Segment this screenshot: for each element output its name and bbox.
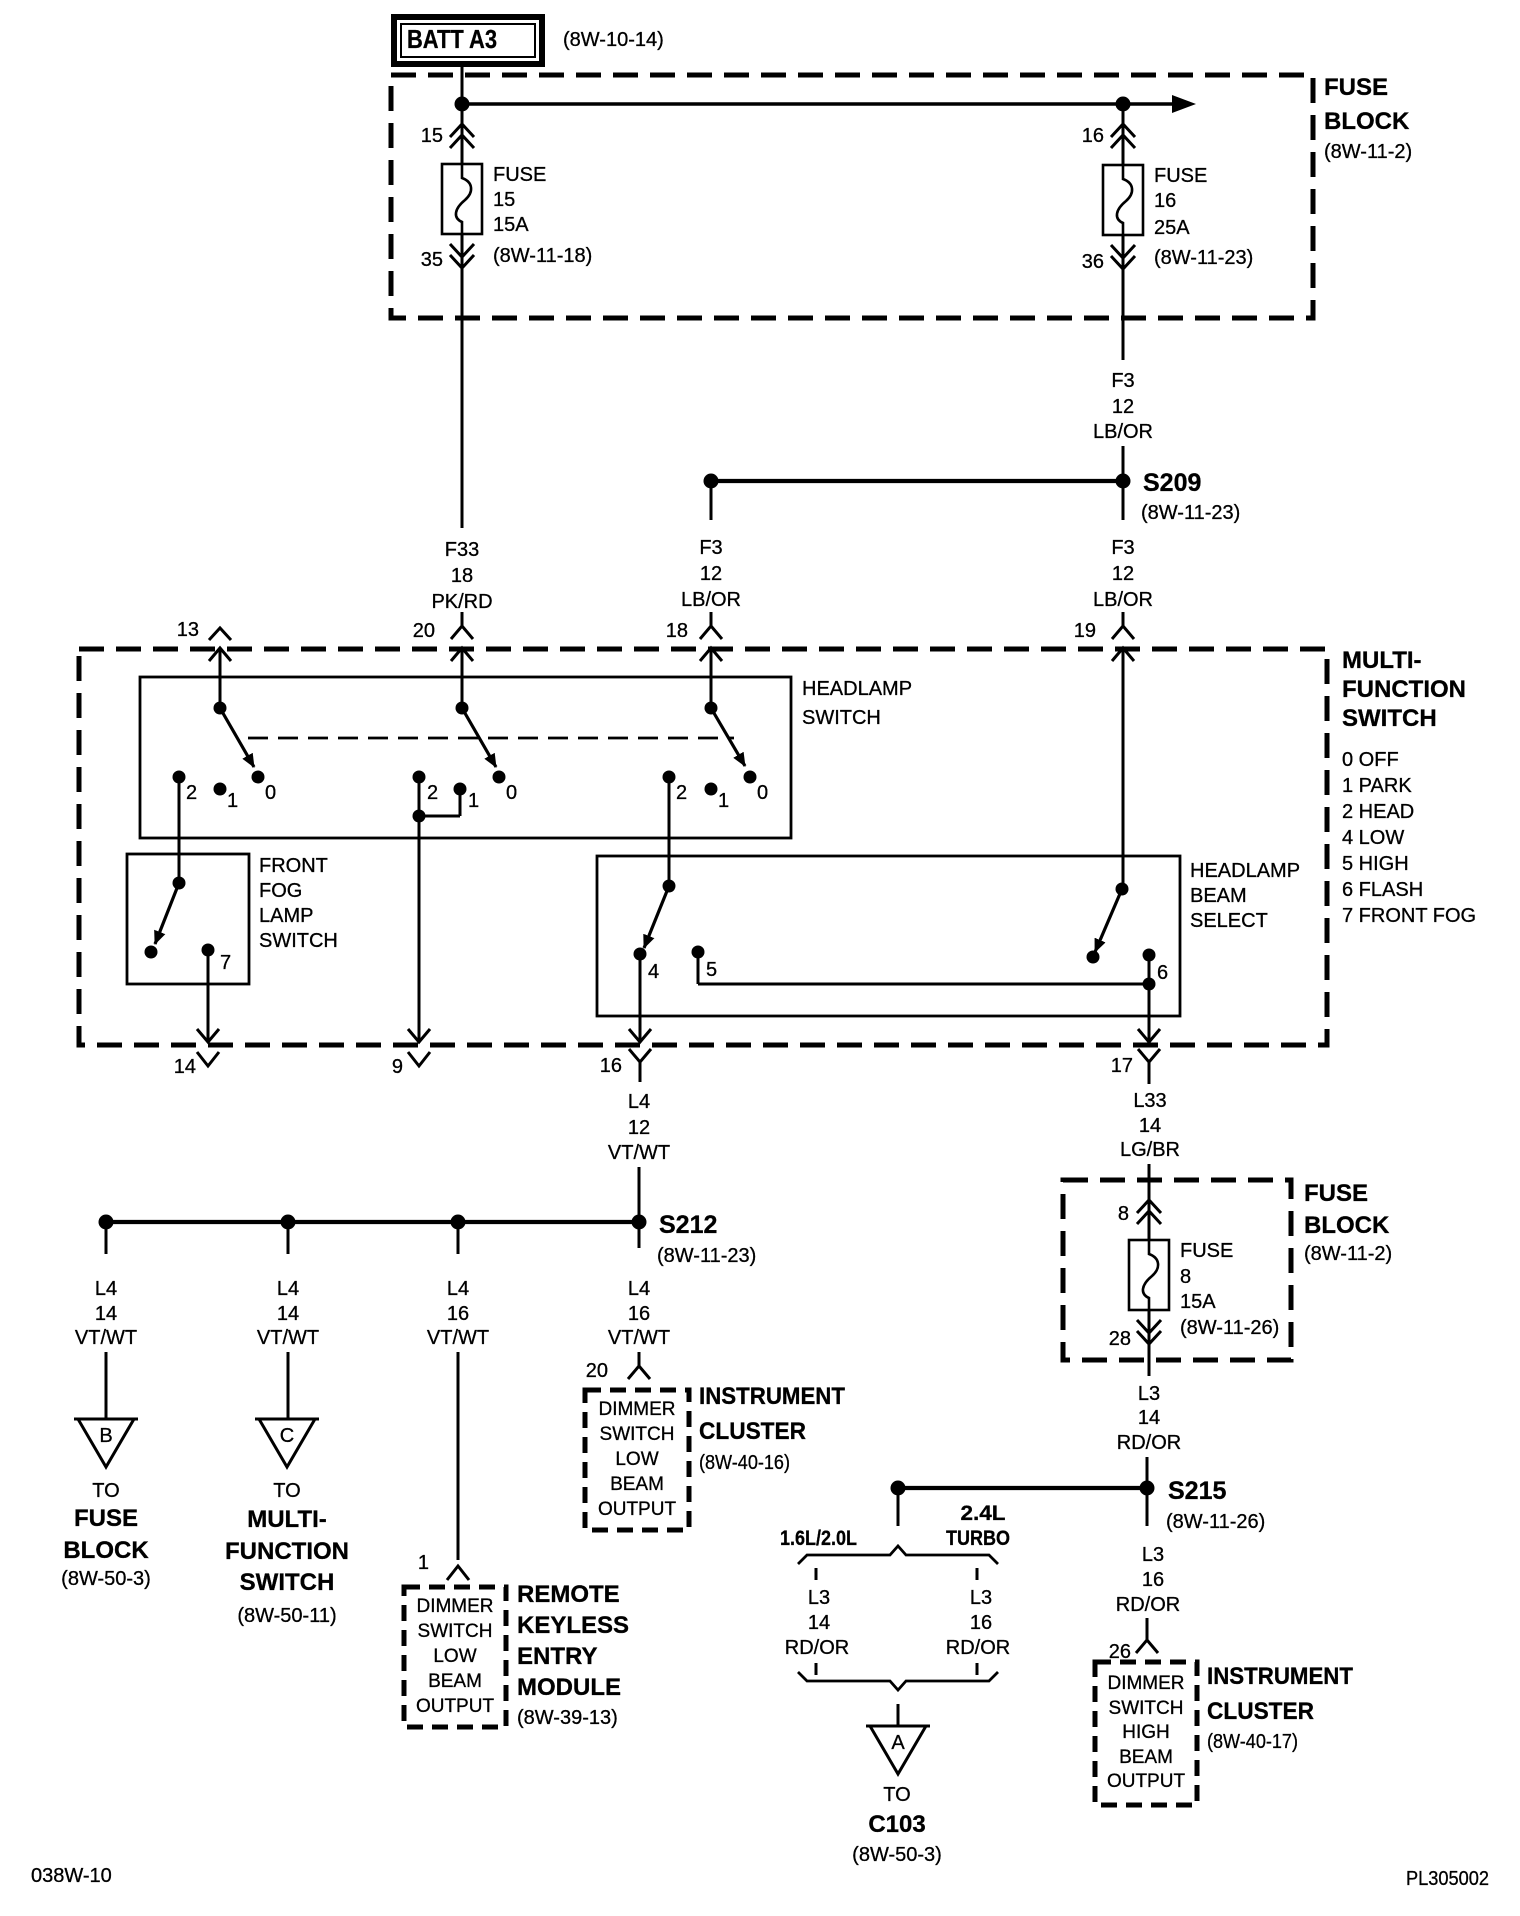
svg-text:DIMMER: DIMMER [598, 1399, 675, 1420]
svg-text:FRONT: FRONT [259, 855, 328, 877]
connector pin 16 (exit) [600, 1029, 651, 1077]
svg-text:L3: L3 [1142, 1544, 1164, 1566]
label HEADLAMP BEAM SELECT [1190, 860, 1300, 932]
svg-text:(8W-11-2): (8W-11-2) [1304, 1243, 1392, 1265]
pin 15 connector [421, 104, 474, 164]
svg-text:TURBO: TURBO [946, 1527, 1010, 1550]
wire to triangle A [897, 1704, 900, 1726]
svg-text:PK/RD: PK/RD [431, 591, 492, 613]
svg-text:17: 17 [1111, 1055, 1133, 1077]
label 2.4L TURBO [946, 1502, 1010, 1550]
svg-text:BEAM: BEAM [610, 1474, 664, 1495]
branch stubs lower [816, 1663, 977, 1675]
wire junction to pin 17 [1148, 984, 1151, 1042]
wire L4 14 VT/WT branch C [257, 1222, 319, 1419]
svg-text:16: 16 [447, 1303, 469, 1325]
connector pin 9 (exit, unused) [392, 1029, 430, 1078]
splice S212 bus [99, 1211, 757, 1267]
pole 1 contacts 2,1,0 [173, 771, 277, 813]
svg-text:16: 16 [970, 1612, 992, 1634]
splice S209 [704, 469, 1241, 524]
svg-text:SWITCH: SWITCH [418, 1621, 493, 1642]
svg-text:LG/BR: LG/BR [1120, 1139, 1180, 1161]
pin 36 connector [1082, 234, 1135, 273]
svg-text:0 OFF: 0 OFF [1342, 749, 1399, 771]
wire from BATT A3 into fuse block [461, 64, 464, 104]
svg-text:LAMP: LAMP [259, 905, 313, 927]
svg-text:HEADLAMP: HEADLAMP [802, 678, 912, 700]
svg-text:LB/OR: LB/OR [1093, 421, 1153, 443]
svg-text:8: 8 [1180, 1266, 1191, 1288]
front fog lamp switch box [127, 854, 249, 984]
svg-text:(8W-10-14): (8W-10-14) [563, 29, 664, 51]
svg-text:BLOCK: BLOCK [63, 1537, 149, 1564]
connector pin 20 (instrument cluster) [586, 1352, 650, 1382]
svg-text:FUSE: FUSE [1180, 1240, 1233, 1262]
wire L4 16 VT/WT branch to RKE module [427, 1222, 489, 1560]
svg-text:A: A [891, 1732, 905, 1754]
svg-text:15A: 15A [493, 214, 529, 236]
svg-text:L33: L33 [1133, 1090, 1166, 1112]
svg-text:DIMMER: DIMMER [1107, 1673, 1184, 1694]
pole 3 contacts 2,1,0 [663, 771, 769, 813]
svg-text:FUNCTION: FUNCTION [1342, 676, 1466, 703]
svg-text:4 LOW: 4 LOW [1342, 827, 1404, 849]
svg-text:OUTPUT: OUTPUT [1107, 1771, 1186, 1792]
label FUSE BLOCK (8W-11-2) lower [1304, 1180, 1392, 1265]
splice S215 [891, 1477, 1266, 1533]
svg-text:RD/OR: RD/OR [946, 1637, 1010, 1659]
svg-text:INSTRUMENT: INSTRUMENT [1207, 1663, 1353, 1690]
wire F33 18 PK/RD [431, 268, 492, 613]
svg-text:RD/OR: RD/OR [1116, 1594, 1180, 1616]
svg-text:OUTPUT: OUTPUT [416, 1696, 495, 1717]
svg-text:6 FLASH: 6 FLASH [1342, 879, 1423, 901]
svg-text:12: 12 [700, 563, 722, 585]
svg-text:TO: TO [92, 1480, 119, 1502]
wire contact 2 to beam select pivot [668, 777, 671, 886]
svg-text:RD/OR: RD/OR [785, 1637, 849, 1659]
pin 35 connector [421, 233, 474, 271]
wire pin 19 to beam select pole [1122, 648, 1125, 889]
svg-text:15: 15 [421, 125, 443, 147]
svg-text:(8W-11-23): (8W-11-23) [657, 1245, 756, 1267]
wire L4 16 VT/WT branch to instrument cluster [608, 1222, 670, 1349]
connector pin 18 (multi-function switch) [666, 612, 722, 661]
label MULTI-FUNCTION SWITCH + positions [1342, 647, 1476, 927]
svg-text:DIMMER: DIMMER [416, 1596, 493, 1617]
switch pole 3 arm [711, 708, 745, 766]
svg-text:VT/WT: VT/WT [257, 1327, 319, 1349]
svg-text:MODULE: MODULE [517, 1674, 621, 1701]
wire L3 14 RD/OR branch [785, 1587, 849, 1659]
svg-text:RD/OR: RD/OR [1117, 1432, 1181, 1454]
svg-text:REMOTE: REMOTE [517, 1581, 620, 1608]
label INSTRUMENT CLUSTER (8W-40-16) [699, 1383, 845, 1474]
node junction at fuse 15 [455, 97, 470, 112]
svg-text:15: 15 [493, 189, 515, 211]
wire contact 2 to fog switch pivot [178, 777, 181, 883]
svg-text:7 FRONT FOG: 7 FRONT FOG [1342, 905, 1476, 927]
svg-text:20: 20 [586, 1360, 608, 1382]
svg-text:14: 14 [95, 1303, 117, 1325]
fuse block 2 outline (dashed) [1063, 1180, 1291, 1360]
wire bus inside fuse block with arrow [462, 95, 1196, 113]
svg-text:L4: L4 [628, 1091, 650, 1113]
svg-text:CLUSTER: CLUSTER [699, 1418, 806, 1445]
connector pin 19 (multi-function switch) [1074, 612, 1134, 661]
wire L4 14 VT/WT branch B [75, 1222, 137, 1419]
svg-text:L4: L4 [277, 1278, 299, 1300]
svg-text:1.6L/2.0L: 1.6L/2.0L [780, 1527, 857, 1550]
merge brace lower [798, 1672, 998, 1690]
svg-text:1: 1 [227, 790, 238, 812]
svg-text:C103: C103 [868, 1811, 925, 1838]
svg-text:13: 13 [177, 619, 199, 641]
mechanical link (dashed) [248, 737, 734, 740]
svg-text:16: 16 [628, 1303, 650, 1325]
svg-text:18: 18 [666, 620, 688, 642]
label FRONT FOG LAMP SWITCH [259, 855, 338, 952]
connector pin 20 (multi-function switch) [413, 612, 473, 661]
svg-text:LB/OR: LB/OR [681, 589, 741, 611]
svg-text:SWITCH: SWITCH [1342, 705, 1437, 732]
beam select pole 1 arm [644, 886, 669, 948]
svg-text:2.4L: 2.4L [961, 1502, 1006, 1525]
svg-text:PL305002: PL305002 [1406, 1868, 1489, 1890]
svg-text:0: 0 [265, 782, 276, 804]
beam select pole 1 pivot [663, 880, 676, 893]
svg-text:(8W-40-17): (8W-40-17) [1207, 1731, 1298, 1753]
svg-text:0: 0 [506, 782, 517, 804]
switch pole 3 pivot [705, 702, 718, 715]
svg-text:5 HIGH: 5 HIGH [1342, 853, 1409, 875]
beam select contacts 4,5 [634, 946, 718, 984]
svg-text:LOW: LOW [433, 1646, 476, 1667]
svg-text:FOG: FOG [259, 880, 302, 902]
svg-text:L4: L4 [95, 1278, 117, 1300]
svg-text:HIGH: HIGH [1122, 1722, 1170, 1743]
svg-text:0: 0 [757, 782, 768, 804]
svg-text:F3: F3 [1111, 370, 1134, 392]
svg-text:VT/WT: VT/WT [608, 1327, 670, 1349]
svg-text:6: 6 [1157, 962, 1168, 984]
label INSTRUMENT CLUSTER (8W-40-17) [1207, 1663, 1353, 1753]
connector pin 14 (exit, unused) [174, 1029, 219, 1078]
svg-text:HEADLAMP: HEADLAMP [1190, 860, 1300, 882]
switch pole 2 pivot [456, 702, 469, 715]
switch pole 1 arm [220, 708, 254, 767]
wire contact 5 to contact 6 junction [698, 952, 1156, 991]
switch pole 1 pivot [214, 702, 227, 715]
svg-text:BLOCK: BLOCK [1304, 1212, 1390, 1239]
wire F3 12 LB/OR (S209 right branch) [1093, 481, 1153, 611]
dimmer switch low beam output box (cluster) [585, 1390, 689, 1530]
svg-text:CLUSTER: CLUSTER [1207, 1698, 1314, 1725]
fuse 15 15A [442, 164, 592, 267]
svg-text:1: 1 [718, 790, 729, 812]
svg-text:OUTPUT: OUTPUT [598, 1499, 677, 1520]
svg-text:LB/OR: LB/OR [1093, 589, 1153, 611]
node junction at fuse 16 [1116, 97, 1131, 112]
svg-text:1: 1 [418, 1552, 429, 1574]
svg-text:(8W-11-2): (8W-11-2) [1324, 141, 1412, 163]
svg-text:28: 28 [1109, 1328, 1131, 1350]
wire pin 18 to headlamp switch pole [710, 648, 713, 708]
connector triangle B [74, 1419, 138, 1467]
svg-text:2: 2 [427, 782, 438, 804]
svg-text:C: C [280, 1425, 294, 1447]
wire L3 14 RD/OR (to S215) [1117, 1344, 1181, 1481]
connector pin 1 (RKE module) [418, 1552, 469, 1580]
label FUSE BLOCK (8W-11-2) [1324, 74, 1412, 163]
beam select pole 2 pivot [1116, 883, 1129, 896]
svg-text:L4: L4 [447, 1278, 469, 1300]
svg-text:14: 14 [1138, 1407, 1160, 1429]
svg-text:4: 4 [648, 961, 659, 983]
svg-text:1: 1 [468, 790, 479, 812]
connector pin 26 (instrument cluster) [1109, 1632, 1158, 1663]
connector pin 13 (multi-function switch, no wire) [177, 619, 231, 661]
svg-text:15A: 15A [1180, 1291, 1216, 1313]
svg-text:16: 16 [1082, 125, 1104, 147]
svg-text:L3: L3 [970, 1587, 992, 1609]
wire F3 12 LB/OR (fuse 16 to S209) [1093, 268, 1153, 481]
svg-text:BATT A3: BATT A3 [407, 24, 497, 54]
svg-text:5: 5 [706, 959, 717, 981]
svg-text:BEAM: BEAM [428, 1671, 482, 1692]
svg-text:14: 14 [808, 1612, 830, 1634]
label REMOTE KEYLESS ENTRY MODULE (8W-39-13) [517, 1581, 629, 1729]
svg-text:7: 7 [220, 952, 231, 974]
fuse 8 15A [1129, 1240, 1279, 1339]
pin 28 connector [1109, 1310, 1161, 1350]
label HEADLAMP SWITCH [802, 678, 912, 729]
label TO C103 (8W-50-3) [852, 1784, 942, 1866]
svg-text:L3: L3 [1138, 1383, 1160, 1405]
svg-text:BEAM: BEAM [1190, 885, 1247, 907]
connector pin 17 (exit) [1111, 1029, 1160, 1077]
svg-text:ENTRY: ENTRY [517, 1643, 597, 1670]
svg-text:8: 8 [1118, 1203, 1129, 1225]
svg-text:FUSE: FUSE [493, 164, 546, 186]
svg-text:35: 35 [421, 249, 443, 271]
svg-text:SWITCH: SWITCH [802, 707, 881, 729]
wire L3 16 RD/OR branch [946, 1587, 1010, 1659]
connector BATT A3 feed box [394, 17, 542, 64]
dimmer switch high beam output box (cluster) [1095, 1662, 1197, 1805]
svg-text:(8W-39-13): (8W-39-13) [517, 1707, 618, 1729]
wire L3 16 RD/OR (S215 to cluster) [1116, 1495, 1180, 1632]
svg-text:MULTI-: MULTI- [247, 1506, 327, 1533]
svg-text:12: 12 [1112, 396, 1134, 418]
svg-text:TO: TO [883, 1784, 910, 1806]
label TO MULTI-FUNCTION SWITCH (8W-50-11) [225, 1480, 349, 1627]
label TO FUSE BLOCK (8W-50-3) [61, 1480, 151, 1590]
svg-text:20: 20 [413, 620, 435, 642]
svg-text:SELECT: SELECT [1190, 910, 1268, 932]
svg-text:S209: S209 [1143, 469, 1201, 497]
svg-text:SWITCH: SWITCH [1109, 1698, 1184, 1719]
svg-text:(8W-50-11): (8W-50-11) [237, 1605, 336, 1627]
svg-text:12: 12 [628, 1117, 650, 1139]
svg-text:BEAM: BEAM [1119, 1747, 1173, 1768]
branch stubs upper [816, 1568, 977, 1580]
svg-text:2 HEAD: 2 HEAD [1342, 801, 1414, 823]
svg-text:(8W-50-3): (8W-50-3) [852, 1844, 942, 1866]
svg-text:INSTRUMENT: INSTRUMENT [699, 1383, 845, 1410]
svg-text:VT/WT: VT/WT [608, 1142, 670, 1164]
headlamp switch box [140, 677, 791, 838]
connector triangle A [866, 1726, 930, 1774]
svg-text:16: 16 [1154, 190, 1176, 212]
pole 2 contacts 2,1,0 [413, 771, 518, 813]
svg-text:9: 9 [392, 1056, 403, 1078]
svg-text:16: 16 [1142, 1569, 1164, 1591]
fog switch arm [155, 883, 179, 944]
fuse block outline (dashed) [391, 75, 1313, 318]
beam select contacts (landed), 6 [1087, 949, 1169, 985]
wire F3 12 LB/OR (S209 left branch) [681, 481, 741, 611]
fog switch pivot [173, 877, 186, 890]
wire S215 to engine split [897, 1488, 900, 1526]
svg-text:(8W-40-16): (8W-40-16) [699, 1452, 790, 1474]
svg-text:(8W-11-23): (8W-11-23) [1154, 247, 1253, 269]
svg-text:25A: 25A [1154, 217, 1190, 239]
svg-text:F3: F3 [699, 537, 722, 559]
dimmer switch low beam output box (RKE) [404, 1587, 506, 1727]
wire pin 20 to headlamp switch pole [461, 648, 464, 708]
svg-text:S212: S212 [659, 1211, 717, 1239]
svg-text:L3: L3 [808, 1587, 830, 1609]
svg-text:(8W-50-3): (8W-50-3) [61, 1568, 151, 1590]
pin 16 connector [1082, 104, 1135, 165]
svg-text:14: 14 [174, 1056, 196, 1078]
svg-text:36: 36 [1082, 251, 1104, 273]
beam select pole 2 arm [1095, 889, 1122, 952]
svg-text:18: 18 [451, 565, 473, 587]
wire L4 12 VT/WT (pin16 to S212) [608, 1075, 670, 1222]
pin 8 connector [1118, 1200, 1161, 1240]
svg-text:B: B [99, 1425, 112, 1447]
fog switch contacts [145, 944, 232, 975]
svg-text:FUSE: FUSE [1324, 74, 1388, 101]
svg-text:F3: F3 [1111, 537, 1134, 559]
wire contact 7 to pin 14 [207, 950, 210, 1042]
svg-text:L4: L4 [628, 1278, 650, 1300]
headlamp beam select box [597, 856, 1180, 1016]
svg-text:038W-10: 038W-10 [31, 1865, 112, 1887]
svg-text:2: 2 [186, 782, 197, 804]
svg-text:FUNCTION: FUNCTION [225, 1538, 349, 1565]
svg-text:FUSE: FUSE [1304, 1180, 1368, 1207]
svg-text:12: 12 [1112, 563, 1134, 585]
svg-text:SWITCH: SWITCH [259, 930, 338, 952]
svg-text:F33: F33 [445, 539, 479, 561]
wire pin 13 to headlamp switch pole [219, 648, 222, 708]
svg-text:BLOCK: BLOCK [1324, 108, 1410, 135]
wire pole2 junction to pin 9 [418, 816, 421, 1042]
multi-function switch outline (dashed) [79, 649, 1327, 1045]
svg-text:FUSE: FUSE [74, 1505, 138, 1532]
svg-text:16: 16 [600, 1055, 622, 1077]
svg-text:S215: S215 [1168, 1477, 1226, 1505]
svg-text:(8W-11-23): (8W-11-23) [1141, 502, 1240, 524]
svg-text:19: 19 [1074, 620, 1096, 642]
svg-text:LOW: LOW [615, 1449, 658, 1470]
svg-text:14: 14 [277, 1303, 299, 1325]
connector triangle C [255, 1419, 319, 1467]
switch pole 2 arm [462, 708, 496, 767]
svg-text:SWITCH: SWITCH [600, 1424, 675, 1445]
svg-text:KEYLESS: KEYLESS [517, 1612, 629, 1639]
svg-text:(8W-11-18): (8W-11-18) [493, 245, 592, 267]
svg-text:VT/WT: VT/WT [75, 1327, 137, 1349]
wire contact2 to contact1 link (pole 2) [413, 777, 461, 823]
svg-text:FUSE: FUSE [1154, 165, 1207, 187]
svg-text:(8W-11-26): (8W-11-26) [1180, 1317, 1279, 1339]
wire contact 4 to pin 16 [639, 954, 642, 1042]
split brace upper [798, 1546, 998, 1564]
svg-text:(8W-11-26): (8W-11-26) [1166, 1511, 1265, 1533]
svg-text:2: 2 [676, 782, 687, 804]
svg-text:SWITCH: SWITCH [240, 1569, 335, 1596]
svg-text:14: 14 [1139, 1115, 1161, 1137]
fuse 16 25A [1103, 165, 1253, 269]
svg-text:1 PARK: 1 PARK [1342, 775, 1412, 797]
svg-text:VT/WT: VT/WT [427, 1327, 489, 1349]
svg-text:TO: TO [273, 1480, 300, 1502]
wire L33 14 LG/BR (pin 17 to fuse block) [1120, 1075, 1180, 1200]
svg-text:MULTI-: MULTI- [1342, 647, 1422, 674]
